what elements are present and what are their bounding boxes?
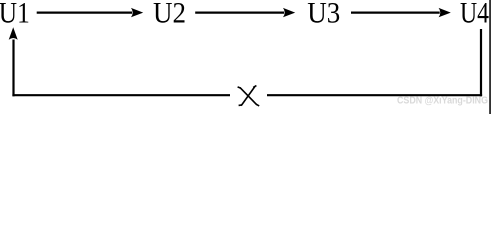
svg-text:U1: U1 — [0, 0, 30, 29]
wire arrow U3 to U4 — [351, 8, 451, 17]
svg-text:U2: U2 — [153, 0, 186, 29]
wire bottom right segment — [267, 94, 482, 96]
svg-text:U3: U3 — [307, 0, 340, 29]
wire feedback up arrow into U1 — [9, 27, 18, 96]
wire U4 down (right vertical) — [480, 29, 482, 96]
svg-text:CSDN @XiYang-DING: CSDN @XiYang-DING — [397, 95, 488, 107]
right border line — [489, 0, 491, 114]
break mark X on feedback wire — [238, 86, 260, 106]
svg-text:U4: U4 — [460, 0, 489, 29]
wire arrow U1 to U2 — [37, 8, 144, 17]
wire bottom left segment — [12, 94, 230, 96]
wire arrow U2 to U3 — [195, 8, 295, 17]
